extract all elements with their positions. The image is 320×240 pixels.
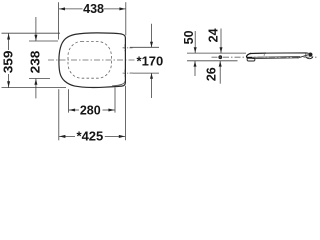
wire dimension 359 extension line top xyxy=(2,32,61,34)
wire dimension 26 shaft xyxy=(219,61,221,84)
node 238 arrow top xyxy=(34,35,37,41)
node hinge cross bottom plan xyxy=(123,70,134,77)
wire dimension *170 extension line bottom xyxy=(130,72,159,74)
node hinge axis dot side view xyxy=(218,55,222,59)
wire dimension 280 line xyxy=(69,109,80,111)
node seat profile side view xyxy=(246,53,312,62)
wire dimension 50 shaft top xyxy=(194,31,196,53)
wire dimension *425 extension line right xyxy=(124,86,126,141)
wire dimension *425 line xyxy=(59,135,75,137)
wire dimension 280 extension line right xyxy=(114,88,116,113)
wire side view extension line bottom xyxy=(187,60,238,62)
node 50 arrow bottom xyxy=(194,61,197,67)
wire dimension 238 shaft top xyxy=(35,17,37,41)
wire dimension 238 extension line top xyxy=(29,40,58,42)
wire dimension 438 extension line left xyxy=(58,2,60,39)
node 50 arrow top xyxy=(194,47,197,53)
node 26 arrow xyxy=(219,61,222,67)
wire dimension 438 extension line right xyxy=(125,2,127,35)
wire dimension *425 extension line left xyxy=(58,89,60,140)
node bumper side view xyxy=(247,58,255,61)
node centerline plan view xyxy=(48,59,135,61)
svg-text:280: 280 xyxy=(80,103,101,117)
wire side view extension line top xyxy=(187,52,246,54)
wire dimension *170 shaft top xyxy=(151,24,153,48)
svg-text:*425: *425 xyxy=(77,129,104,143)
node *425 arrow right xyxy=(119,135,125,138)
wire dimension 238 shaft bottom xyxy=(35,79,37,99)
svg-text:359: 359 xyxy=(2,50,16,73)
svg-text:*170: *170 xyxy=(137,55,164,69)
wire dimension 50 shaft bottom xyxy=(194,61,196,76)
node 280 arrow left xyxy=(69,108,75,111)
node hinge cross top plan xyxy=(123,44,134,51)
wire dimension 359 extension line bottom xyxy=(2,87,67,89)
node 24 arrow xyxy=(220,47,223,53)
node seat cover outline plan view xyxy=(59,33,126,88)
node 359 arrow bottom xyxy=(7,81,10,87)
wire dimension 438 line xyxy=(59,8,83,10)
wire dimension 24 shaft xyxy=(220,29,222,54)
node 438 arrow right xyxy=(119,7,125,10)
wire dimension *170 extension line top xyxy=(130,46,159,48)
wire dimension 238 extension line bottom xyxy=(29,78,50,80)
svg-text:24: 24 xyxy=(206,28,220,42)
node hinge knob side view xyxy=(308,53,312,57)
node inner opening dashed plan view xyxy=(68,42,111,79)
node *170 arrow top xyxy=(150,42,153,47)
wire dimension 359 line xyxy=(8,33,10,50)
svg-text:238: 238 xyxy=(28,51,42,74)
wire dimension 280 extension line left xyxy=(68,89,70,112)
node hinge arm side view xyxy=(298,55,309,58)
svg-text:26: 26 xyxy=(204,67,218,81)
node *170 arrow bottom xyxy=(150,73,153,78)
node *425 arrow left xyxy=(59,135,65,138)
node 280 arrow right xyxy=(108,108,114,111)
svg-text:50: 50 xyxy=(182,30,196,44)
wire dimension *170 shaft bottom xyxy=(151,73,153,98)
node 359 arrow top xyxy=(7,34,10,40)
node 438 arrow left xyxy=(59,7,65,10)
node 238 arrow bottom xyxy=(34,79,37,85)
node seat ring front edge plan view xyxy=(112,81,125,86)
node centerline side view xyxy=(212,56,317,58)
svg-text:438: 438 xyxy=(83,2,104,16)
